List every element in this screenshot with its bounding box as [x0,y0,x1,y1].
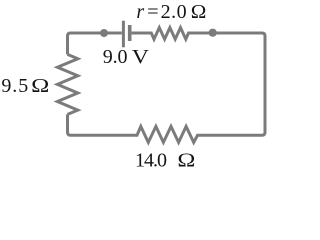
svg-text:r: r [136,1,144,23]
svg-text:14.0: 14.0 [135,149,167,171]
svg-text:Ω: Ω [177,149,195,171]
svg-text:2.0: 2.0 [161,1,187,23]
svg-text:Ω: Ω [191,1,207,23]
svg-text:=: = [147,1,159,23]
svg-text:Ω: Ω [31,75,49,97]
svg-text:9.0: 9.0 [103,46,128,68]
svg-text:9.5: 9.5 [1,75,28,97]
svg-text:V: V [132,46,150,68]
